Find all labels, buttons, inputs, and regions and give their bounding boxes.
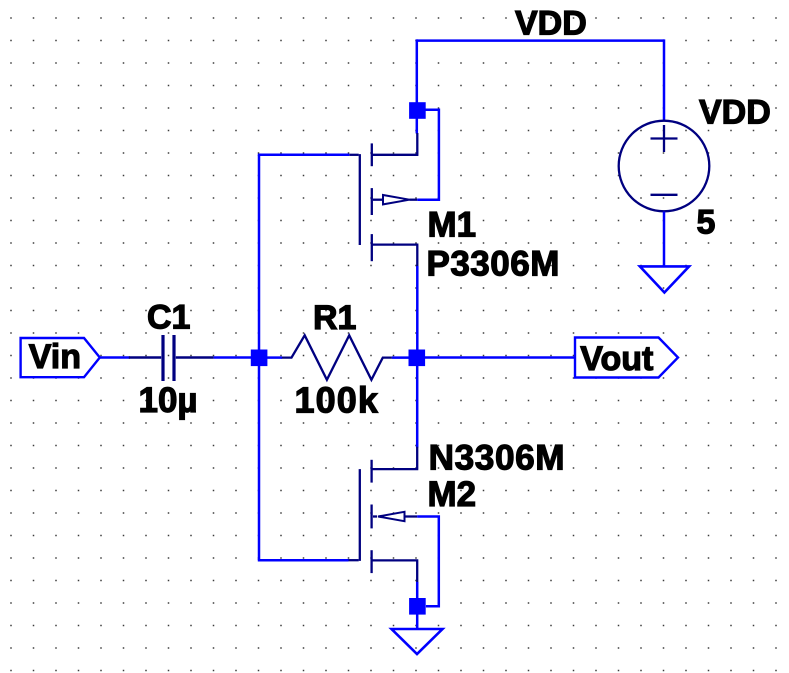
voltage source VDD (619, 121, 710, 212)
junction node output (409, 350, 426, 367)
transistor M1 (349, 133, 418, 267)
wire M1 source down to output node (416, 266, 419, 358)
wire M1 body to drain node (417, 110, 439, 200)
svg-text:M2: M2 (428, 475, 477, 514)
transistor M2 (349, 447, 419, 583)
capacitor C1 (129, 335, 214, 381)
ground (below M2) (392, 629, 443, 654)
wire output node to Vout port (425, 356, 576, 359)
svg-text:10µ: 10µ (139, 381, 198, 420)
wire M2 source down to source node (416, 582, 419, 600)
wire gate bus to M2 gate (258, 559, 349, 562)
junction node M1 drain / VDD (409, 102, 426, 119)
svg-text:VDD: VDD (699, 94, 771, 132)
svg-text:5: 5 (697, 203, 716, 241)
wire gate bus vertical (input node to both gates) (258, 155, 261, 560)
wire Vin to capacitor C1 (100, 356, 130, 359)
wire VDD rail down to voltage source plus (663, 39, 666, 121)
svg-text:Vin: Vin (29, 338, 81, 376)
svg-text:P3306M: P3306M (427, 244, 560, 283)
wire voltage source minus to ground (663, 212, 666, 267)
wire capacitor C1 to input node (214, 356, 259, 359)
svg-text:N3306M: N3306M (429, 438, 566, 477)
wire gate bus to M1 gate (258, 154, 350, 157)
wire M2 source node to ground (416, 614, 419, 629)
svg-text:100k: 100k (295, 380, 380, 421)
svg-text:VDD: VDD (515, 5, 587, 43)
port Vin (21, 338, 100, 377)
resistor R1 (281, 335, 392, 380)
junction node M2 source (409, 598, 426, 615)
wire VDD rail top horizontal (417, 39, 665, 42)
wire VDD rail down to M1 drain node (416, 39, 419, 133)
junction node input (gates/C1/R1) (251, 350, 268, 367)
svg-text:M1: M1 (428, 206, 477, 245)
wire R1 to output node (392, 356, 417, 359)
wire M2 body to source node (417, 517, 439, 607)
wire input node to R1 (267, 356, 282, 359)
svg-text:R1: R1 (313, 299, 356, 337)
port Vout (575, 338, 678, 379)
wire output node down to M2 drain (416, 366, 419, 448)
ground (below VDD source) (640, 266, 689, 292)
svg-text:Vout: Vout (580, 340, 653, 378)
svg-text:C1: C1 (147, 298, 190, 336)
